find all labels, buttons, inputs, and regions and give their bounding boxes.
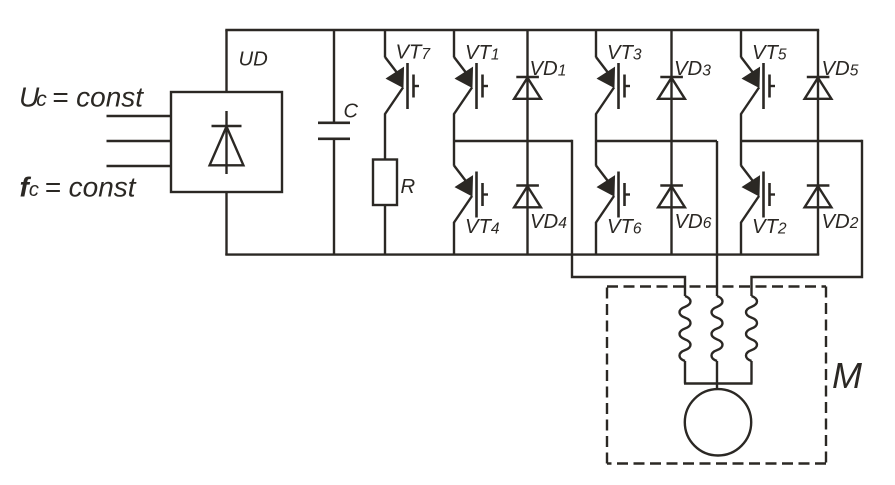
wire rectifier input line 1: [107, 115, 172, 117]
motor stator coil phase B: [712, 296, 723, 361]
transistor VT2: [741, 166, 775, 223]
svg-text:C: C: [344, 100, 359, 122]
svg-text:M: M: [832, 355, 862, 396]
svg-text:VT2: VT2: [752, 216, 787, 238]
wire VT3 emitter lead: [595, 114, 597, 142]
svg-text:VD4: VD4: [530, 211, 567, 233]
diode VD1: [514, 77, 541, 99]
diode VD6: [658, 186, 685, 208]
wire phase A mid-rail: [454, 140, 572, 142]
diode VD2: [805, 186, 832, 208]
wire VT7 emitter to R: [384, 114, 386, 160]
svg-text:VD3: VD3: [674, 58, 711, 80]
wire rectifier top lead: [225, 30, 227, 92]
svg-text:Uc: Uc: [19, 82, 47, 113]
svg-text:VT6: VT6: [607, 216, 642, 238]
transistor VT5: [741, 57, 775, 114]
wire capacitor bottom lead: [333, 140, 335, 255]
svg-text:VT4: VT4: [465, 216, 500, 238]
svg-text:fc: fc: [20, 172, 39, 203]
wire VD3/VD6 leg: [670, 30, 672, 255]
motor stator coil phase C: [746, 296, 757, 361]
wire phase A drop: [572, 140, 685, 296]
wire phase C drop: [752, 140, 863, 296]
svg-text:VT3: VT3: [607, 42, 642, 64]
wire VT2 emitter lead: [740, 222, 742, 255]
wire R bottom lead: [384, 205, 386, 255]
diode VD3: [658, 77, 685, 99]
transistor VT7: [385, 57, 419, 114]
motor rotor circle: [685, 389, 751, 455]
wire VT3 collector lead: [595, 30, 597, 57]
wire coil B tail: [716, 361, 718, 389]
svg-text:VT1: VT1: [465, 42, 500, 64]
wire capacitor top lead: [333, 30, 335, 122]
wire VT4 emitter lead: [453, 222, 455, 255]
wire VT5 collector lead: [740, 30, 742, 57]
wire VT1 emitter lead: [453, 114, 455, 142]
transistor VT1: [454, 57, 488, 114]
wire rectifier bottom lead: [225, 192, 227, 255]
wire VT6 emitter lead: [595, 222, 597, 255]
capacitor C: [318, 123, 350, 139]
svg-text:VD2: VD2: [822, 211, 859, 233]
wire coil C tail: [750, 361, 752, 384]
svg-text:VT7: VT7: [396, 42, 432, 64]
wire VT5 emitter lead: [740, 114, 742, 142]
wire VT7 collector lead: [384, 30, 386, 57]
wire top DC bus: [225, 29, 819, 31]
diode VD4: [514, 186, 541, 208]
wire rectifier input line 2: [107, 140, 172, 142]
motor dashed enclosure: [607, 287, 826, 464]
wire star point connector: [684, 382, 753, 384]
wire bottom DC bus: [225, 253, 819, 255]
transistor VT4: [454, 166, 488, 223]
wire VT1 collector lead: [453, 30, 455, 57]
wire VT2 collector lead: [740, 141, 742, 166]
svg-text:VT5: VT5: [752, 42, 787, 64]
transistor VT6: [596, 166, 630, 223]
wire VD5/VD2 leg: [817, 30, 819, 255]
svg-text:VD5: VD5: [822, 58, 859, 80]
svg-text:= const: = const: [45, 172, 137, 203]
svg-text:VD1: VD1: [530, 58, 567, 80]
resistor R: [373, 160, 397, 206]
wire VD1/VD4 leg: [526, 30, 528, 255]
wire rectifier input line 3: [107, 165, 172, 167]
motor stator coil phase A: [680, 296, 691, 361]
svg-text:= const: = const: [52, 82, 144, 113]
diode VD5: [805, 77, 832, 99]
svg-text:UD: UD: [239, 48, 268, 70]
wire phase B drop: [716, 141, 718, 296]
svg-text:VD6: VD6: [675, 211, 712, 233]
wire VT4 collector lead: [453, 141, 455, 166]
wire coil A tail: [684, 361, 686, 384]
svg-text:R: R: [401, 176, 416, 198]
transistor VT3: [596, 57, 630, 114]
rectifier UD: [171, 92, 282, 192]
wire VT6 collector lead: [595, 141, 597, 166]
wire phase B mid-rail: [596, 140, 717, 142]
wire phase C mid-rail: [741, 140, 862, 142]
